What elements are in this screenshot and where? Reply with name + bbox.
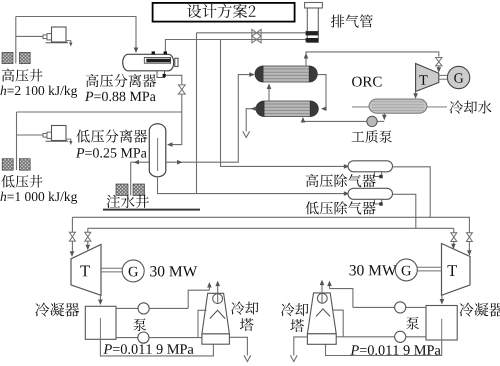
LP steam pipe to LP separator junction <box>17 111 182 113</box>
brine pipe to LP separator inlet <box>168 95 182 145</box>
label 低压除气器 <box>305 201 375 214</box>
arrow into left condenser <box>98 300 103 306</box>
open drain arrow <box>243 131 250 137</box>
injection well ground line <box>103 209 200 211</box>
pipe condenser bottom to pump suction <box>383 113 385 117</box>
HP steam riser to HP deaerator <box>221 40 347 167</box>
label 注水井 <box>107 195 149 208</box>
ORC turbine T <box>416 64 439 92</box>
label 高压除气器 <box>306 174 376 187</box>
vent riser from LP water line <box>196 33 198 194</box>
working fluid pump 工质泵 <box>367 116 377 126</box>
left condenser internal tube <box>99 318 101 339</box>
left cooling tower 冷却塔 <box>202 293 230 334</box>
label 泵 right <box>406 317 419 330</box>
ORC generator G <box>447 66 469 88</box>
left turbine HP inlet riser <box>71 217 73 232</box>
HP steam outlet pipe from separator <box>165 40 305 52</box>
right tower spray pipe <box>330 289 353 308</box>
left cooling water return pipe <box>116 337 138 339</box>
vent line A to exhaust pipe <box>197 32 306 34</box>
left tower fan circle <box>213 294 223 304</box>
LP wellhead branch pipe <box>17 134 44 136</box>
arrow into lower evaporator bottom <box>301 117 306 123</box>
right tower drain open arrow <box>290 355 297 361</box>
arrow into left turbine HP <box>70 251 75 257</box>
right generator G <box>395 259 417 281</box>
ORC condenser drum <box>369 99 427 113</box>
left cooling water supply pipe <box>116 307 138 309</box>
right tower internal spray arrow <box>316 309 330 317</box>
crossover pipe upper to lower evaporator <box>317 75 326 109</box>
HP wellhead vent outlet <box>66 41 71 44</box>
arrow up at evaporator vapor outlet <box>304 53 309 59</box>
arrow into lower evaporator <box>321 106 327 111</box>
arrow into HP separator <box>134 48 139 54</box>
label 高压井 <box>2 69 43 82</box>
HP well riser pipe <box>15 17 17 64</box>
LP steam pipe to ORC evaporator <box>166 75 253 163</box>
HP steam pipe well to separator <box>16 17 136 50</box>
right condensate drain loop <box>326 340 442 356</box>
arrow into HP deaerator <box>344 164 350 169</box>
right turbine HP inlet riser <box>468 217 470 232</box>
LP well hatched squares 低压井 <box>2 159 13 171</box>
flow arrow on LP steam pipe <box>177 160 183 165</box>
pipe LP valve to right turbine <box>453 242 455 246</box>
label 冷凝器 right <box>460 303 500 317</box>
water pipe LP separator to LP deaerator <box>158 178 347 194</box>
left turbine LP inlet valve <box>85 232 91 241</box>
left turbine HP inlet valve <box>69 232 75 241</box>
right tower fan circle <box>317 293 327 303</box>
LP steam bus line <box>88 227 454 229</box>
right turbine HP inlet valve <box>466 233 472 242</box>
label 低压分离器 <box>76 129 147 142</box>
right turbine LP inlet riser <box>453 228 455 232</box>
LP deaerator bottom nozzle <box>375 199 382 204</box>
right generator shaft <box>418 266 442 268</box>
left condensate drain loop <box>100 339 213 356</box>
right condenser internal tube <box>441 319 443 340</box>
LP separator vessel 低压分离器 <box>149 124 166 177</box>
left turbine LP inlet riser <box>87 228 89 232</box>
ORC generator shaft <box>439 74 448 76</box>
valve on vent line B <box>252 36 261 43</box>
HP deaerator vessel 高压除气器 <box>348 161 393 172</box>
left tower hot water branch pipe <box>198 310 207 337</box>
HP wellhead branch pipe <box>16 35 43 37</box>
label 高压分离器 <box>86 74 156 87</box>
pipe valve to left turbine <box>71 241 73 253</box>
label h=2 100 kJ/kg <box>1 86 7 95</box>
left tower spray pipe <box>188 290 209 308</box>
label 泵 left <box>133 318 146 331</box>
label P=0.88 MPa <box>85 92 93 101</box>
HP deaerator bottom nozzle <box>375 172 382 177</box>
arrow into right turbine LP <box>451 244 456 250</box>
HP separator demister <box>144 58 170 64</box>
pipe LP valve to left turbine <box>87 241 89 246</box>
ORC vapor pipe to turbine <box>306 52 439 66</box>
HP deaerator outlet pipe <box>393 167 431 218</box>
interdrum riser pipe <box>268 85 270 102</box>
left tower internal spray arrow <box>210 310 225 318</box>
exhaust pipe flange bands <box>306 31 319 35</box>
HP well hatched squares 高压井 <box>2 52 13 63</box>
label ORC <box>352 77 381 87</box>
valve on brine pipe <box>178 85 185 94</box>
left generator shaft <box>101 267 122 269</box>
HP wellhead valve assembly <box>43 35 47 39</box>
left tower drain open arrow <box>244 355 251 361</box>
left generator G 30 MW <box>122 260 144 282</box>
LP deaerator outlet pipe <box>393 194 416 228</box>
valve on ORC turbine inlet <box>436 58 442 66</box>
left cooling pump lower <box>138 332 149 343</box>
right cooling water supply pipe <box>406 306 426 308</box>
arrow into ORC condenser <box>413 93 418 99</box>
right cooling water return pipe <box>406 336 426 338</box>
right turbine exhaust pipe <box>441 295 443 300</box>
arrow into left turbine LP <box>85 245 90 251</box>
label 30 MW left <box>150 266 197 277</box>
label P=0.011 9 MPa left <box>103 344 112 353</box>
right tower spray riser arrow <box>329 282 331 289</box>
label 冷却塔 right <box>281 303 308 316</box>
HP separator top nozzles <box>152 51 155 54</box>
right cooling tower 冷却塔 <box>307 293 336 334</box>
label h=1 000 kJ/kg <box>1 192 7 201</box>
label 排气管 <box>331 14 373 27</box>
pump discharge pipe to lower evaporator <box>303 118 367 121</box>
left tower spray riser arrow <box>208 284 210 291</box>
brine pipe from HP separator outlet <box>166 75 182 84</box>
LP deaerator vessel 低压除气器 <box>348 188 393 199</box>
left turbine T <box>71 245 101 296</box>
ORC upper evaporator drum <box>263 66 309 82</box>
arrow toward injection well <box>134 160 140 165</box>
valve on vent line A <box>252 29 261 36</box>
label 冷却水 <box>450 100 492 113</box>
right cooling pump lower <box>395 331 406 342</box>
pipe valve to ORC turbine <box>438 66 440 71</box>
HP separator vessel 高压分离器 <box>123 54 174 71</box>
right cooling pump upper 泵 <box>395 302 406 313</box>
label 低压井 <box>1 175 42 188</box>
pipe valve to right turbine HP <box>468 242 470 253</box>
HP separator bottom outlet box <box>157 71 165 78</box>
injection well hatched squares 注水井 <box>116 184 128 196</box>
arrow into upper evaporator bottom <box>267 84 272 90</box>
LP well riser pipe <box>16 112 18 170</box>
left condenser box 冷凝器 <box>85 306 116 339</box>
arrow into right turbine HP <box>467 250 472 256</box>
cooling water line 冷却水 <box>352 106 447 108</box>
left tower overflow drain <box>229 337 247 355</box>
arrow into upper evaporator <box>249 72 255 77</box>
right turbine LP inlet valve <box>451 233 457 242</box>
left tower fan air arrow <box>217 282 219 303</box>
title box 设计方案2 <box>153 3 295 22</box>
left turbine exhaust pipe <box>99 295 101 301</box>
right tower overflow drain <box>294 337 308 356</box>
label 冷却塔 left <box>231 301 258 314</box>
right turbine T <box>442 244 471 296</box>
injection line from LP separator <box>131 161 150 163</box>
right tower hot water branch pipe <box>333 310 343 337</box>
arrow into right condenser <box>440 299 445 305</box>
label 工质泵 <box>352 130 392 143</box>
LP wellhead valve assembly <box>43 133 47 137</box>
label P=0.011 9 MPa right <box>350 345 359 354</box>
LP wellhead vent outlet <box>66 139 71 142</box>
exhaust pipe 排气管 <box>305 3 323 9</box>
LP separator internal tube <box>157 138 159 171</box>
arrow into LP deaerator <box>344 191 350 196</box>
arrow into ORC turbine <box>436 67 441 73</box>
flow arrow on outlet pipe <box>251 106 256 111</box>
right tower fan air arrow <box>321 281 323 303</box>
ORC lower evaporator drum <box>264 101 310 117</box>
label 30 MW right <box>350 265 397 276</box>
label 冷凝器 left <box>35 303 79 317</box>
HP steam bus line <box>72 216 470 218</box>
ORC turbine exhaust pipe <box>415 92 417 96</box>
label P=0.25 MPa <box>76 148 84 157</box>
left cooling pump upper 泵 <box>138 303 149 314</box>
geothermal outlet pipe with drain arrow <box>246 109 256 132</box>
arrow into LP separator <box>167 142 173 147</box>
right condenser box 冷凝器 <box>426 306 457 341</box>
